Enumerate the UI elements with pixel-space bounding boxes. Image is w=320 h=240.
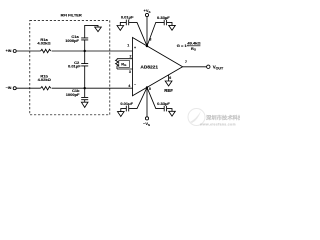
svg-text:7: 7 [185, 60, 187, 64]
node -IN terminal [13, 87, 16, 90]
ground (C1a) [95, 27, 102, 32]
svg-text:−IN: −IN [6, 86, 12, 90]
wire bottom-left branch [129, 87, 147, 108]
svg-text:0.01μF: 0.01μF [120, 101, 133, 106]
ground (top-left) [117, 26, 124, 31]
watermark logo [188, 109, 244, 127]
wire output pin7 [183, 66, 207, 68]
svg-text:0.01μF: 0.01μF [68, 64, 81, 69]
svg-text:4.02kΩ: 4.02kΩ [37, 41, 51, 46]
ground (bottom-left) [118, 112, 125, 117]
svg-text:49.4kΩ: 49.4kΩ [187, 40, 201, 45]
ground (bottom-right) [169, 111, 176, 116]
node +IN terminal [13, 50, 16, 53]
svg-text:+: + [134, 46, 136, 50]
capacitor 0.01uF bottom [121, 106, 129, 112]
resistor R1b [41, 87, 51, 90]
capacitor C1b [81, 88, 88, 102]
RFI filter dashed box [30, 20, 110, 114]
resistor RG zigzag [116, 59, 119, 69]
svg-text:3: 3 [129, 70, 131, 74]
capacitor 0.33uF top [164, 20, 172, 26]
svg-text:1000pF: 1000pF [65, 38, 79, 43]
svg-text:RFI FILTER: RFI FILTER [61, 12, 82, 17]
svg-text:4.02kΩ: 4.02kΩ [38, 77, 52, 82]
svg-text:5: 5 [149, 87, 151, 91]
junction dot C1a/C2 on +IN [84, 50, 86, 52]
capacitor 0.33uF bottom [164, 106, 172, 112]
svg-text:0.33μF: 0.33μF [157, 101, 170, 106]
svg-text:RG: RG [191, 46, 197, 52]
svg-text:8: 8 [149, 37, 151, 41]
svg-text:1000pF: 1000pF [66, 92, 80, 97]
Vout terminal [207, 65, 210, 68]
+Vs terminal [145, 13, 148, 16]
svg-text:−VS: −VS [143, 121, 150, 127]
capacitor 0.01uF top [120, 20, 128, 26]
wire +IN to pin1 [16, 50, 132, 52]
ground (C1b) [81, 102, 88, 107]
wire -IN to pin4 [16, 87, 132, 89]
wire top-right branch [147, 22, 164, 46]
op-amp U1 triangle AD8221 [133, 38, 183, 96]
svg-text:0.33μF: 0.33μF [157, 15, 170, 20]
wire bottom-right branch [147, 87, 164, 108]
svg-text:RG: RG [121, 61, 127, 67]
svg-text:REF: REF [164, 88, 173, 93]
svg-text:AD8221: AD8221 [140, 65, 158, 71]
RG loop wires pins 2-3 [117, 59, 133, 69]
svg-text:+IN: +IN [6, 49, 12, 53]
wire -Vs vertical [146, 87, 148, 116]
ground (top-right) [169, 25, 176, 30]
svg-text:VOUT: VOUT [213, 65, 224, 71]
svg-text:深圳市技术科技: 深圳市技术科技 [206, 114, 240, 122]
svg-text:www.elecfans.com: www.elecfans.com [199, 123, 236, 127]
node pin8 junction [146, 45, 148, 47]
wire top-left branch [129, 22, 147, 46]
-Vs terminal [145, 117, 148, 120]
junction dot C2/C1b on -IN [84, 87, 86, 89]
svg-text:4: 4 [128, 84, 130, 88]
capacitor C1a [81, 25, 98, 51]
wire pin6 REF stub [168, 75, 170, 81]
svg-text:2: 2 [130, 54, 132, 58]
svg-text:1: 1 [127, 43, 129, 47]
svg-text:−: − [134, 83, 136, 87]
node pin5 junction [146, 86, 148, 88]
wire +Vs vertical [146, 17, 148, 46]
svg-text:0.01μF: 0.01μF [121, 15, 134, 20]
svg-text:+VS: +VS [143, 8, 150, 14]
RG label box [119, 61, 130, 68]
svg-text:6: 6 [169, 76, 171, 80]
resistor R1a [41, 49, 51, 52]
ground (REF) [165, 81, 172, 86]
capacitor C2 [81, 51, 88, 88]
